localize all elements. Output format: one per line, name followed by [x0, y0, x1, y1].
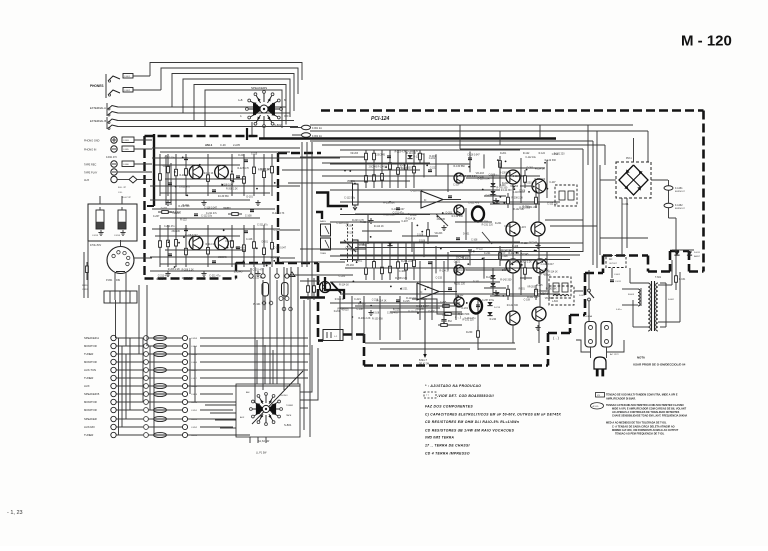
svg-text:A: A	[240, 115, 242, 118]
board upper extra wires	[322, 175, 420, 177]
amp dashed relay box	[555, 185, 577, 206]
svg-text:AC 127V: AC 127V	[610, 353, 619, 356]
svg-text:C-211 47u: C-211 47u	[164, 226, 175, 228]
svg-text:A-Y.05: A-Y.05	[593, 405, 600, 408]
bold wire switch drop	[246, 128, 248, 140]
svg-text:PHONO GND: PHONO GND	[84, 140, 100, 143]
svg-text:C-852: C-852	[191, 427, 198, 429]
svg-text:C-29: C-29	[220, 143, 226, 147]
svg-text:R-114 1K: R-114 1K	[235, 248, 245, 250]
svg-text:D-201: D-201	[446, 212, 453, 214]
top component row	[365, 150, 367, 163]
wires to AC plug	[576, 340, 591, 352]
preamp wires	[152, 157, 280, 159]
svg-text:D-201: D-201	[238, 155, 245, 157]
svg-text:C-257 470u: C-257 470u	[482, 300, 495, 302]
svg-text:C-215: C-215	[436, 276, 443, 279]
bold wire to headphone jack	[300, 296, 325, 299]
svg-text:R-130 56K: R-130 56K	[546, 288, 557, 290]
svg-text:C-118 0.047: C-118 0.047	[541, 263, 555, 266]
svg-text:C-854: C-854	[191, 346, 198, 348]
wires bridge connections	[633, 138, 635, 162]
wire fuse to resistor	[669, 217, 677, 219]
svg-text:D-201: D-201	[334, 311, 341, 313]
svg-text:C-215: C-215	[519, 226, 526, 229]
svg-text:AUX-TUN: AUX-TUN	[84, 368, 96, 372]
svg-text:AUX: AUX	[240, 416, 245, 419]
svg-text:R-142 330: R-142 330	[545, 159, 557, 162]
svg-text:R-114 1K: R-114 1K	[204, 173, 214, 175]
svg-text:C-112 10u: C-112 10u	[547, 204, 558, 206]
svg-text:R-215: R-215	[523, 207, 530, 209]
svg-text:R-240: R-240	[486, 276, 493, 279]
svg-text:BA157: BA157	[694, 255, 701, 258]
preamp transistor Q1	[189, 165, 203, 179]
wires into switch from top	[256, 340, 258, 384]
svg-text:C-801: C-801	[124, 76, 131, 78]
amp junction dots	[408, 213, 410, 215]
chassis ground under caps	[100, 230, 102, 233]
preamp junction dots	[231, 170, 233, 172]
svg-text:R-201: R-201	[519, 289, 526, 291]
svg-text:R-122: R-122	[347, 233, 354, 235]
svg-text:PHONO IN: PHONO IN	[84, 149, 97, 152]
svg-text:2SC945: 2SC945	[540, 294, 549, 296]
svg-text:C-221: C-221	[274, 230, 281, 232]
legend dashed box	[424, 392, 436, 398]
svg-text:R-114 1K: R-114 1K	[206, 244, 216, 246]
wires DIN to selector	[115, 300, 117, 338]
svg-text:R-201: R-201	[442, 315, 449, 317]
bus wires board to selector	[254, 267, 256, 403]
amp driver transistor bold	[472, 207, 484, 222]
svg-text:C-215: C-215	[535, 290, 542, 292]
svg-text:R-142 330: R-142 330	[452, 215, 464, 218]
phono board mid components	[158, 211, 172, 213]
svg-text:C-118 0.047: C-118 0.047	[513, 176, 526, 178]
svg-text:R-240: R-240	[462, 258, 469, 260]
speaker wiring harness loop	[133, 75, 150, 77]
svg-text:R-130 56K: R-130 56K	[372, 318, 383, 320]
fuse holder F-602	[601, 322, 612, 348]
long interconnect wires	[340, 242, 583, 244]
svg-text:R-114 1K: R-114 1K	[439, 270, 449, 273]
svg-text:D-201: D-201	[462, 307, 469, 310]
loudness dashed link	[347, 224, 349, 263]
amp op amp IC	[417, 283, 439, 300]
svg-text:C-802: C-802	[124, 90, 131, 92]
amp output stage wires 2	[520, 158, 522, 203]
svg-text:2SC945: 2SC945	[234, 270, 243, 273]
board lower band wires	[330, 302, 460, 304]
svg-text:PHONO: PHONO	[280, 395, 288, 397]
svg-text:R-142 330: R-142 330	[178, 205, 190, 208]
amp vertical link wires	[423, 153, 425, 177]
preamp capacitors	[184, 157, 188, 159]
svg-text:C-814: C-814	[114, 235, 121, 237]
svg-text:- 1, 23: - 1, 23	[7, 510, 23, 516]
svg-text:* *: * *	[426, 394, 429, 398]
svg-text:R-223 4.7K: R-223 4.7K	[237, 168, 249, 170]
svg-text:MONITOR: MONITOR	[84, 360, 97, 364]
svg-text:T-601: T-601	[655, 276, 662, 279]
svg-text:C) CAPACITORES ELETROLITICO: C) CAPACITORES ELETROLITICOS EM uF 50-60…	[425, 413, 562, 417]
svg-text:R-208 2.2K: R-208 2.2K	[168, 268, 180, 271]
svg-text:L-602: L-602	[552, 301, 559, 303]
svg-text:C-108: C-108	[477, 175, 484, 178]
svg-text:AC: AC	[609, 258, 613, 261]
svg-text:C-221: C-221	[429, 158, 436, 160]
svg-text:R-208 2.2K: R-208 2.2K	[520, 262, 532, 264]
svg-text:IC: IC	[424, 199, 427, 202]
svg-text:CD RESISTORES dB 1/4W EM: CD RESISTORES dB 1/4W EM RAIO VOCACOES	[425, 429, 515, 433]
svg-text:R-142 330: R-142 330	[527, 297, 538, 299]
wire diode link	[672, 249, 694, 251]
fuse F-1261	[664, 186, 673, 190]
right mid wires	[545, 219, 583, 221]
amp input wires	[300, 156, 366, 158]
svg-text:PM-1: PM-1	[626, 157, 632, 160]
preamp wires	[152, 228, 280, 230]
svg-text:2-A05: 2-A05	[233, 143, 240, 147]
svg-text:EXTERNAL A: EXTERNAL A	[90, 106, 106, 110]
svg-text:VR-203: VR-203	[527, 287, 536, 289]
svg-text:* : AJUSTADO NA PRODUCAO: * : AJUSTADO NA PRODUCAO	[425, 384, 481, 388]
svg-text:R-114 1K: R-114 1K	[406, 217, 416, 220]
amp output transistors	[506, 170, 520, 184]
amp diodes	[490, 183, 495, 187]
svg-text:CD 4 TERRA IMPRESSO: CD 4 TERRA IMPRESSO	[425, 452, 470, 456]
svg-text:C-221: C-221	[430, 167, 437, 170]
svg-text:D-201: D-201	[527, 166, 534, 169]
svg-text:17 .. TERRA DE CHASSI: 17 .. TERRA DE CHASSI	[425, 444, 470, 448]
dial lamp PL-902	[282, 283, 289, 297]
preamp capacitors	[184, 228, 188, 230]
svg-text:C-108: C-108	[246, 239, 253, 241]
supply rail wires top	[310, 124, 633, 126]
amp emitter resistors	[507, 285, 509, 300]
relay RY-601 dashed box	[549, 286, 574, 305]
wires external jacks to switch	[118, 106, 286, 108]
svg-text:C-118 0.047: C-118 0.047	[185, 235, 198, 237]
amp ground symbols	[443, 317, 445, 320]
svg-text:S-602: S-602	[668, 299, 675, 301]
AC outlet L-601 dashed box	[606, 256, 626, 268]
svg-text:M - 120: M - 120	[681, 33, 732, 50]
wires cap box	[99, 196, 101, 204]
svg-text:R-223 4.7K: R-223 4.7K	[272, 212, 284, 215]
capacitor C-801	[123, 74, 133, 79]
svg-text:P-801: P-801	[106, 279, 113, 282]
svg-text:F-601 3A: F-601 3A	[583, 315, 593, 318]
fuse F-1262	[664, 203, 673, 207]
preamp ground	[203, 200, 205, 203]
balance pot	[353, 240, 359, 260]
function selector switch S-801	[236, 384, 300, 437]
svg-text:L-1: L-1	[334, 336, 338, 338]
svg-text:R-130 56K: R-130 56K	[454, 165, 466, 168]
resistors left of DIN	[86, 262, 88, 280]
junction box L-101 on border	[323, 330, 343, 341]
svg-text:C-601: C-601	[614, 274, 621, 276]
svg-text:VR-203: VR-203	[163, 166, 172, 168]
svg-text:TREB: TREB	[320, 253, 326, 255]
svg-text:R-231 220: R-231 220	[463, 318, 475, 321]
svg-text:C-806: C-806	[123, 164, 130, 166]
main board PCI-124 dashed outline	[321, 109, 704, 112]
svg-text:F-801 2A: F-801 2A	[312, 127, 322, 130]
svg-text:D-201: D-201	[502, 182, 509, 185]
tone control pots	[353, 184, 359, 205]
svg-text:R-114 1K: R-114 1K	[374, 225, 384, 228]
capacitor C-802	[123, 88, 133, 93]
preamp transistor Q2	[215, 165, 229, 179]
amp output stage wires 3	[492, 268, 494, 295]
wires power switch	[588, 270, 590, 289]
svg-text:OUTLET: OUTLET	[609, 263, 618, 265]
svg-text:C-211 47u: C-211 47u	[486, 194, 498, 197]
amp op amp IC	[421, 191, 443, 208]
svg-text:C-215: C-215	[372, 299, 379, 301]
phono board top rail	[152, 147, 300, 149]
svg-text:AMPLIFICADOR DI BIAR.: AMPLIFICADOR DI BIAR.	[606, 398, 636, 401]
svg-text:C-805: C-805	[123, 149, 130, 151]
svg-text:VR-203: VR-203	[350, 153, 359, 155]
svg-text:C-850: C-850	[191, 402, 198, 404]
output node wires	[477, 298, 479, 350]
svg-text:C-221: C-221	[401, 287, 408, 290]
feedback network wires	[412, 299, 462, 314]
svg-text:C-221: C-221	[339, 275, 346, 278]
svg-text:R-130 56K: R-130 56K	[499, 172, 510, 174]
svg-text:VR-203: VR-203	[225, 241, 234, 243]
right notes block	[596, 393, 605, 398]
long verticals from fuses	[301, 142, 303, 267]
svg-text:R-8.. 2P: R-8.. 2P	[118, 187, 127, 189]
front panel board dashed outline	[145, 135, 259, 137]
svg-text:TAPE PLAY: TAPE PLAY	[84, 172, 98, 175]
svg-text:BURNOUT: BURNOUT	[675, 191, 686, 193]
svg-text:R-208 2.2K: R-208 2.2K	[258, 170, 270, 172]
svg-text:S-802: S-802	[274, 123, 282, 127]
svg-text:10-47 2P: 10-47 2P	[122, 197, 131, 199]
headphone driver transistor Q-901	[320, 282, 331, 293]
svg-text:TUNER: TUNER	[84, 433, 93, 437]
wires relay	[540, 290, 549, 292]
AC plug P-601	[594, 357, 606, 369]
svg-text:C-221: C-221	[484, 252, 491, 255]
wires lamps down	[264, 296, 266, 310]
svg-text:MONITOR: MONITOR	[84, 344, 97, 348]
amp junction dots	[537, 262, 539, 264]
svg-text:TUNER: TUNER	[286, 405, 294, 407]
svg-text:C-803: C-803	[123, 140, 130, 142]
preamp resistor network	[159, 154, 161, 196]
wires selector switch right side	[300, 345, 312, 392]
svg-text:R-130 56K: R-130 56K	[458, 313, 470, 316]
svg-text:C-108: C-108	[399, 270, 406, 273]
svg-text:C-118 0.047: C-118 0.047	[416, 306, 429, 308]
bottom rails	[365, 342, 515, 344]
svg-text:USAR PRIOR DE O-OM/DECCIOL/E: USAR PRIOR DE O-OM/DECCIOL/E-04	[633, 363, 686, 367]
svg-text:D-201: D-201	[540, 273, 547, 275]
svg-text:TAPE: TAPE	[286, 414, 292, 417]
svg-text:F-1261: F-1261	[675, 187, 683, 190]
svg-text:D-201: D-201	[247, 196, 254, 198]
svg-text:MONITOR: MONITOR	[84, 400, 97, 404]
transformer secondary winding small	[638, 289, 640, 292]
svg-text:R-122: R-122	[539, 153, 546, 155]
svg-text:R-811: R-811	[82, 285, 88, 287]
amp driver transistor bold	[470, 299, 482, 314]
svg-text:TENSAO AO PEM FREQUENCIA: TENSAO AO PEM FREQUENCIA DE T-IOL	[615, 433, 665, 436]
svg-text:C-221: C-221	[354, 298, 361, 301]
svg-text:R-142 330: R-142 330	[501, 190, 512, 192]
svg-text:R-142 330: R-142 330	[500, 278, 512, 281]
dial lamp PL-901	[262, 283, 269, 297]
svg-text:R-208 2.2K: R-208 2.2K	[358, 317, 370, 320]
svg-text:R-240: R-240	[400, 165, 407, 167]
amp input wires	[300, 248, 366, 250]
svg-text:C-859: C-859	[191, 394, 198, 396]
svg-text:SPEAKER A: SPEAKER A	[84, 336, 99, 340]
amp resistor columns	[365, 150, 367, 188]
svg-text:MONITOR: MONITOR	[84, 408, 97, 412]
fuse F-801	[302, 125, 311, 129]
svg-text:R-114 1K: R-114 1K	[378, 166, 388, 168]
bold speaker return bus wire	[259, 137, 556, 139]
svg-text:AM: AM	[246, 391, 249, 394]
amp extra capacitors	[428, 261, 432, 263]
svg-text:VR-203: VR-203	[434, 233, 443, 235]
bold wire center step	[316, 193, 348, 207]
preamp junction dots	[256, 247, 258, 249]
svg-text:R-269: R-269	[466, 332, 473, 334]
svg-text:SPEAKER: SPEAKER	[84, 417, 97, 421]
svg-text:R-215: R-215	[420, 298, 427, 301]
wires DIN	[114, 273, 116, 300]
svg-text:AM-1: AM-1	[205, 143, 213, 147]
svg-text:0.01u: 0.01u	[616, 309, 622, 311]
svg-text:C-857: C-857	[191, 370, 198, 372]
svg-text:C-118 0.047: C-118 0.047	[392, 208, 406, 211]
selector vertical bus wires	[118, 338, 120, 435]
output column verticals	[512, 184, 514, 222]
svg-text:C-211 47u: C-211 47u	[468, 202, 480, 205]
svg-text:R-201: R-201	[179, 175, 186, 177]
amp small transistors	[454, 173, 464, 183]
svg-text:C-211 47u: C-211 47u	[209, 275, 221, 278]
svg-text:0M5 0M5 TERRA: 0M5 0M5 TERRA	[425, 436, 454, 440]
svg-text:S-601: S-601	[579, 295, 586, 297]
svg-text:C-215: C-215	[504, 225, 511, 228]
svg-text:R-208 2.2K: R-208 2.2K	[226, 189, 238, 191]
diode D-612	[687, 252, 692, 256]
amp output stage wires	[466, 269, 506, 271]
DIN connector P-801	[107, 247, 134, 274]
svg-text:TUNER: TUNER	[84, 352, 93, 356]
svg-text:A+B: A+B	[238, 99, 243, 102]
svg-text:R-215: R-215	[401, 168, 408, 170]
svg-text:VR-204: VR-204	[346, 265, 355, 267]
svg-text:2SC945: 2SC945	[376, 153, 385, 156]
transformer right winding wires	[665, 283, 667, 327]
svg-text:PL-901: PL-901	[253, 304, 261, 306]
svg-text:C-207: C-207	[428, 311, 435, 313]
svg-text:C-108: C-108	[419, 241, 426, 243]
svg-text:C-215: C-215	[403, 300, 410, 303]
svg-text:R-208 2.2K: R-208 2.2K	[182, 268, 194, 271]
svg-text:R-231 220: R-231 220	[534, 179, 545, 181]
svg-text:C-858: C-858	[191, 386, 198, 388]
svg-text:C-118 0.047: C-118 0.047	[274, 247, 287, 249]
wires below switch	[249, 437, 251, 443]
svg-text:D-201: D-201	[500, 153, 507, 155]
svg-text:C-108: C-108	[524, 299, 531, 301]
svg-text:AUX: AUX	[84, 179, 89, 182]
svg-text:2SC945: 2SC945	[415, 309, 424, 311]
preamp transistor Q2	[215, 236, 229, 250]
svg-text:PCI-124: PCI-124	[371, 116, 390, 122]
svg-text:VR-203: VR-203	[476, 172, 485, 175]
svg-text:C-211 47u: C-211 47u	[387, 312, 398, 314]
amp output stage wires 2	[520, 250, 522, 295]
svg-text:R-215: R-215	[499, 252, 506, 254]
svg-text:TENSAO DE USO MULTI-TANDEM CO: TENSAO DE USO MULTI-TANDEM COM UTRA, MID…	[606, 394, 678, 397]
svg-text:-VIDE DET. COD BOA5555OOII: -VIDE DET. COD BOA5555OOII	[437, 394, 494, 398]
svg-text:EXTERNAL B: EXTERNAL B	[90, 119, 106, 123]
svg-text:PHONES: PHONES	[90, 84, 103, 88]
svg-text:F-1262: F-1262	[675, 204, 683, 207]
svg-text:C-108: C-108	[263, 262, 270, 264]
svg-text:C-108: C-108	[489, 173, 496, 176]
svg-text:R-231 220: R-231 220	[554, 154, 565, 156]
svg-text:C-856: C-856	[191, 362, 198, 364]
rail drop wires right	[587, 125, 589, 165]
svg-text:C-211 47u: C-211 47u	[407, 151, 418, 153]
svg-text:D-213: D-213	[494, 307, 501, 309]
svg-text:AUX-MO: AUX-MO	[84, 425, 95, 429]
preamp resistor network	[159, 225, 161, 267]
wire phones to loop	[133, 75, 150, 77]
svg-text:R-142 330: R-142 330	[508, 253, 519, 255]
svg-text:C-853: C-853	[191, 435, 198, 437]
svg-text:R-231 220: R-231 220	[482, 223, 494, 226]
svg-text:C-853: C-853	[191, 338, 198, 340]
svg-text:C-221: C-221	[454, 261, 461, 264]
svg-text:D-601: D-601	[622, 203, 629, 206]
svg-text:S1,S4 5W: S1,S4 5W	[258, 440, 270, 443]
svg-text:C-112 10u: C-112 10u	[201, 214, 213, 217]
power switch S-601	[588, 289, 591, 292]
box below DIN	[104, 291, 137, 303]
amp wire mesh	[340, 149, 520, 151]
svg-text:R-130 56K: R-130 56K	[218, 196, 229, 198]
jack column vertical wires	[165, 155, 167, 205]
amp extra capacitors	[428, 169, 432, 171]
capacitor C-611	[610, 279, 614, 281]
svg-text:2SC945: 2SC945	[502, 269, 511, 272]
bold ground wire left	[153, 134, 155, 206]
svg-text:S-801: S-801	[284, 423, 292, 427]
svg-text:BURNOUT: BURNOUT	[675, 208, 686, 210]
svg-text:C-855: C-855	[191, 354, 198, 356]
svg-text:VR-203: VR-203	[172, 212, 181, 215]
mid rails	[340, 254, 580, 256]
svg-text:R-142 330: R-142 330	[497, 188, 508, 190]
svg-text:R-223 4.7K: R-223 4.7K	[360, 222, 372, 224]
svg-text:SPEAKER B: SPEAKER B	[84, 392, 99, 396]
